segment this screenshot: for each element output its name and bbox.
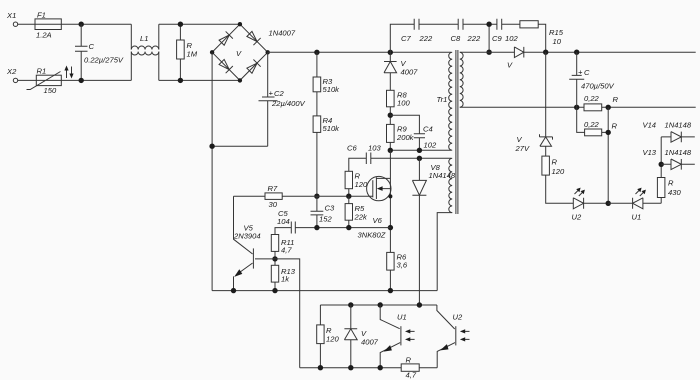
svg-text:470µ/50V: 470µ/50V	[581, 82, 615, 91]
wire R3 to R4	[316, 92, 318, 116]
svg-text:C4: C4	[423, 125, 433, 134]
svg-text:C6: C6	[347, 144, 357, 153]
svg-text:152: 152	[319, 215, 332, 224]
svg-text:120: 120	[326, 335, 339, 344]
svg-text:C8: C8	[451, 34, 461, 43]
diode V14 1N4148	[661, 132, 695, 143]
wire R1 to L1 bottom	[61, 79, 131, 81]
svg-text:150: 150	[44, 86, 57, 95]
capacitor C2 22u/400V	[259, 52, 278, 146]
svg-text:103: 103	[368, 144, 381, 153]
svg-text:2N3904: 2N3904	[233, 232, 261, 241]
varistor R1 150	[36, 75, 61, 85]
secondary output top rail	[460, 51, 696, 53]
capacitor C9 102	[497, 19, 502, 30]
resistor R 120 (zener)	[542, 156, 550, 175]
svg-text:C: C	[584, 68, 590, 77]
svg-text:1.2A: 1.2A	[36, 31, 52, 40]
svg-text:22µ/400V: 22µ/400V	[271, 99, 306, 108]
transformer Tr1 core	[456, 50, 458, 214]
top snubber line	[390, 24, 545, 52]
wire X2 to R1	[18, 79, 37, 81]
svg-text:4007: 4007	[361, 338, 379, 347]
svg-text:120: 120	[355, 180, 368, 189]
svg-text:30: 30	[269, 200, 278, 209]
inductor L1 (common-mode choke)	[130, 24, 132, 80]
svg-text:C3: C3	[325, 204, 335, 213]
terminal X1	[13, 22, 17, 26]
capacitor C 0.22u/275V	[75, 24, 88, 80]
svg-text:Tr1: Tr1	[437, 95, 448, 104]
resistor R5 22k	[348, 196, 350, 203]
bridge diode bottom-left	[218, 58, 233, 73]
base wire to opto section	[255, 259, 300, 368]
primary ground rail	[212, 290, 437, 292]
secondary bottom rail	[460, 106, 696, 108]
svg-text:R: R	[668, 179, 674, 188]
svg-text:222: 222	[419, 34, 433, 43]
svg-text:0.22µ/275V: 0.22µ/275V	[84, 56, 124, 65]
svg-text:U2: U2	[572, 213, 582, 222]
capacitor C3 152	[311, 196, 324, 227]
svg-text:1N4148: 1N4148	[665, 121, 692, 130]
diode bridge V 1N4007 (diamond)	[212, 24, 268, 80]
wire F1 to L1 top	[61, 23, 131, 25]
svg-text:4007: 4007	[401, 68, 419, 77]
phototransistor U1	[380, 305, 400, 329]
svg-text:V14: V14	[643, 121, 657, 130]
svg-text:200k: 200k	[396, 133, 415, 142]
negative bus (left vertical)	[211, 52, 213, 290]
resistor R13 1k	[271, 265, 278, 282]
resistor R 4,7 (bottom)	[401, 364, 419, 371]
zener V 27V	[540, 52, 553, 156]
svg-text:102: 102	[424, 141, 437, 150]
resistor R9 200k	[387, 124, 395, 142]
svg-text:+: +	[269, 89, 274, 98]
resistor R8 100	[387, 90, 395, 107]
svg-text:L1: L1	[140, 34, 148, 43]
phototransistor U2	[437, 305, 455, 329]
svg-text:R15: R15	[549, 28, 564, 37]
node C9 to secondary	[488, 24, 490, 52]
resistor R 430	[660, 198, 662, 204]
terminal X2	[13, 78, 17, 82]
resistor R 120 (opto)	[319, 305, 321, 325]
svg-text:1N4007: 1N4007	[269, 29, 296, 38]
fuse F1	[35, 19, 61, 30]
resistor R 1M	[179, 24, 181, 40]
svg-text:U1: U1	[632, 213, 642, 222]
svg-text:X1: X1	[6, 11, 16, 20]
svg-text:4,7: 4,7	[281, 246, 292, 255]
svg-text:R: R	[406, 356, 412, 365]
resistor R 0,22 (upper)	[584, 104, 602, 111]
svg-text:430: 430	[668, 188, 681, 197]
svg-text:R: R	[613, 95, 619, 104]
svg-text:+: +	[578, 68, 583, 77]
diode V 4007 (snubber clamp)	[384, 52, 397, 90]
resistor R 0,22 (lower)	[577, 107, 609, 203]
svg-text:10: 10	[553, 37, 562, 46]
svg-text:510k: 510k	[323, 124, 341, 133]
node C bottom	[79, 78, 84, 83]
bridge diode top-right	[246, 30, 261, 45]
resistor R11 4,7	[271, 235, 278, 252]
svg-text:R: R	[552, 158, 558, 167]
svg-text:104: 104	[277, 217, 290, 226]
svg-text:X2: X2	[6, 67, 17, 76]
wire drain line (primary bottom)	[390, 149, 451, 151]
svg-text:510k: 510k	[323, 85, 341, 94]
wire X1 to F1	[18, 23, 35, 25]
wire aux bottom return	[437, 213, 452, 291]
wire C2 return to negative bus	[212, 145, 268, 147]
svg-text:R: R	[612, 122, 618, 131]
svg-text:22k: 22k	[354, 213, 368, 222]
bridge diode bottom-right	[246, 59, 261, 74]
wire L1 to bridge top	[159, 23, 240, 25]
node C top	[79, 22, 84, 27]
svg-text:C9: C9	[492, 34, 502, 43]
surge arrows	[66, 68, 68, 78]
svg-text:C: C	[89, 42, 95, 51]
resistor R6 3,6	[387, 252, 394, 270]
wire R9 to drain node	[389, 142, 391, 150]
svg-text:3NK80Z: 3NK80Z	[358, 231, 386, 240]
svg-text:C7: C7	[401, 34, 411, 43]
capacitor C5 104	[291, 222, 295, 234]
svg-text:U2: U2	[453, 313, 463, 322]
output rectifier diode V	[514, 47, 523, 58]
wire R8 to R9 node	[389, 107, 391, 125]
svg-text:1N4148: 1N4148	[665, 148, 692, 157]
svg-text:V6: V6	[373, 216, 383, 225]
LED U1 (optocoupler emitter)	[608, 198, 661, 209]
Tr1 primary winding	[449, 52, 453, 150]
svg-text:1M: 1M	[187, 50, 198, 59]
svg-text:120: 120	[552, 167, 565, 176]
svg-text:0,22: 0,22	[584, 120, 600, 129]
wire R4 to gate line	[316, 132, 318, 196]
svg-text:R1: R1	[37, 67, 47, 76]
Tr1 aux winding	[449, 158, 452, 212]
capacitor C7 222	[414, 19, 419, 30]
svg-text:4,7: 4,7	[406, 371, 417, 380]
bridge vertex nodes	[238, 22, 242, 26]
resistor R3 510k	[316, 52, 318, 77]
positive rail from bridge to transformer	[268, 51, 452, 53]
resistor R7 30	[265, 193, 282, 200]
svg-text:0,22: 0,22	[584, 94, 600, 103]
gate wire	[234, 195, 373, 197]
MOSFET V6 3NK80Z	[367, 176, 391, 200]
svg-text:3,6: 3,6	[397, 261, 408, 270]
feedback wire (C5/C3/R5/source)	[275, 228, 390, 235]
svg-text:U1: U1	[397, 313, 407, 322]
opto box bottom wire	[300, 367, 438, 369]
transistor V5 2N3904	[234, 196, 253, 254]
resistor R15 10	[520, 21, 538, 28]
svg-text:102: 102	[505, 34, 518, 43]
svg-text:222: 222	[467, 34, 481, 43]
resistor R4 510k	[313, 116, 321, 132]
opto box top wire	[320, 304, 437, 306]
svg-text:R7: R7	[268, 184, 278, 193]
capacitor C 470u/50V	[569, 52, 584, 107]
diode V 4007 (opto clamp)	[344, 305, 357, 368]
svg-text:100: 100	[397, 99, 410, 108]
LED U2 (optocoupler emitter)	[573, 198, 608, 209]
Tr1 secondary winding	[460, 52, 463, 107]
capacitor C4 102	[390, 115, 425, 150]
svg-text:27V: 27V	[515, 144, 530, 153]
capacitor C6 103	[349, 153, 371, 172]
diode V13 1N4148	[661, 159, 695, 170]
svg-text:F1: F1	[37, 11, 46, 20]
wire L1 to bridge bottom	[159, 79, 240, 81]
source sense wire	[388, 225, 393, 230]
bridge diode top-left	[218, 31, 233, 46]
diode V8 1N4148	[412, 158, 426, 305]
svg-text:C2: C2	[274, 89, 284, 98]
capacitor C8 222	[458, 19, 463, 30]
svg-text:1k: 1k	[281, 275, 290, 284]
svg-text:V13: V13	[643, 148, 657, 157]
resistor R 120 (gate)	[345, 171, 352, 188]
wire aux winding top (feedback)	[371, 157, 451, 159]
